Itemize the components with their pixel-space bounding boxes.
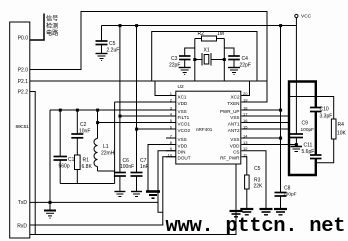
loop antenna thick box — [289, 82, 316, 176]
svg-text:5.6pF: 5.6pF — [302, 149, 315, 155]
svg-text:22K: 22K — [254, 184, 264, 190]
svg-text:CS: CS — [233, 149, 239, 154]
svg-text:RF_PWR: RF_PWR — [220, 156, 240, 161]
svg-text:12: 12 — [243, 146, 248, 151]
svg-text:TXEN: TXEN — [227, 101, 239, 106]
svg-text:C5: C5 — [109, 41, 116, 47]
svg-text:15: 15 — [243, 125, 248, 130]
ground (R3) — [240, 209, 253, 215]
svg-text:VDD: VDD — [178, 101, 188, 106]
svg-text:X1: X1 — [204, 48, 210, 54]
svg-text:C3: C3 — [171, 56, 178, 62]
pin 16 ANT1 wire — [241, 122, 289, 124]
svg-text:XC1: XC1 — [178, 94, 187, 99]
ground (C3) — [179, 68, 191, 75]
svg-text:13: 13 — [243, 140, 248, 145]
svg-text:P2.0: P2.0 — [18, 67, 29, 73]
pin 20 XC2 wire to crystal box — [241, 81, 249, 96]
pin 6 VCO2 wire — [137, 128, 176, 130]
svg-text:22pF: 22pF — [240, 63, 251, 69]
svg-text:U2: U2 — [178, 84, 184, 90]
wire VCC rail y25.5 — [102, 25, 297, 27]
wire bottom long line — [30, 165, 236, 235]
svg-text:10: 10 — [168, 152, 173, 157]
svg-text:ANT1: ANT1 — [228, 121, 240, 126]
svg-text:C1: C1 — [68, 157, 75, 163]
pin 13 VDD wire — [241, 144, 296, 146]
resistor R1 — [75, 155, 81, 170]
svg-text:C5: C5 — [254, 166, 261, 172]
pin 12 CS wire down to ground — [241, 151, 266, 209]
svg-text:VSS: VSS — [230, 115, 239, 120]
capacitor C7 — [131, 26, 143, 192]
junction dots — [59, 109, 62, 112]
pin 14 VSS wire — [241, 137, 280, 139]
wire VCC down to C9 — [295, 18, 297, 134]
svg-text:C2: C2 — [80, 122, 87, 128]
svg-text:ANT2: ANT2 — [228, 128, 240, 133]
svg-text:VCC: VCC — [301, 14, 312, 20]
svg-text:22pF: 22pF — [169, 63, 180, 69]
svg-text:C8: C8 — [284, 186, 291, 192]
ground (C6) — [114, 192, 125, 197]
capacitor C3 — [179, 48, 195, 68]
svg-text:100pF: 100pF — [283, 192, 297, 198]
crystal X1 — [195, 53, 225, 66]
svg-text:VSS: VSS — [178, 109, 187, 114]
svg-text:6.8K: 6.8K — [82, 164, 93, 170]
svg-text:P2.1: P2.1 — [18, 79, 29, 85]
ground (C7) — [131, 192, 142, 197]
svg-text:信号: 信号 — [46, 15, 58, 23]
capacitor C4 — [224, 48, 240, 68]
resistor R2 — [195, 36, 225, 41]
svg-text:20: 20 — [243, 91, 248, 96]
capacitor C8 — [275, 193, 287, 210]
capacitor C11 (series in loop) — [310, 155, 322, 159]
svg-text:nRF401: nRF401 — [196, 127, 213, 132]
svg-text:19: 19 — [243, 98, 248, 103]
svg-text:C4: C4 — [242, 56, 249, 62]
inductor L1 — [94, 110, 98, 171]
svg-text:L1: L1 — [103, 144, 109, 150]
capacitor C9 — [290, 134, 303, 147]
pin 8 VDD wire to thick ground — [148, 145, 176, 192]
svg-text:DIN: DIN — [178, 149, 186, 154]
svg-text:1nF: 1nF — [140, 164, 149, 170]
crystal sub-circuit box — [152, 32, 257, 82]
svg-text:C11: C11 — [304, 143, 313, 149]
resistor R4 parallel branch — [289, 97, 336, 163]
svg-text:1M: 1M — [217, 31, 224, 37]
resistor R3 — [245, 175, 250, 189]
pin 9 stub — [166, 150, 176, 152]
svg-text:2.2uF: 2.2uF — [107, 48, 120, 54]
svg-text:DOUT: DOUT — [178, 156, 191, 161]
svg-text:R1: R1 — [83, 158, 90, 164]
ground (C4) — [228, 68, 240, 75]
capacitor C10 (series in loop) — [310, 108, 322, 112]
pin 10 stub — [166, 156, 176, 158]
svg-text:VDD: VDD — [230, 143, 240, 148]
junction (XC2-X1) — [223, 58, 226, 61]
svg-text:PWR_UP: PWR_UP — [220, 109, 240, 114]
svg-text:VDD: VDD — [178, 143, 188, 148]
pin 17 VSS wire — [241, 115, 289, 117]
wire TxD to DIN — [30, 201, 158, 203]
svg-text:R2: R2 — [198, 31, 205, 37]
svg-text:检测: 检测 — [46, 22, 58, 30]
svg-text:100nF: 100nF — [120, 164, 134, 170]
wire L1 bottom to riser — [98, 170, 115, 172]
pin 5 VCO1 wire — [98, 122, 176, 124]
svg-text:17: 17 — [243, 112, 248, 117]
ground (C9) — [291, 147, 303, 152]
svg-text:VSS: VSS — [178, 137, 187, 142]
thick ground (VSS pin7) — [146, 192, 160, 199]
pin 7 VSS stub — [166, 137, 176, 139]
capacitor C2 — [71, 110, 83, 155]
svg-text:FILT1: FILT1 — [178, 115, 190, 120]
svg-text:RxD: RxD — [17, 223, 27, 229]
wire DIN riser — [158, 151, 176, 213]
pin 4 FILT1 wire — [120, 115, 176, 117]
pin 15 ANT2 wire — [241, 128, 289, 130]
pin 2 VDD wire — [115, 101, 176, 103]
wire P0.0 to signal-detect circuit — [30, 14, 44, 41]
VCC symbol — [295, 14, 298, 17]
node XC2 vertical — [223, 39, 225, 82]
ground (VSS left) — [44, 211, 56, 219]
capacitor C5 (2.2uF) — [96, 26, 108, 54]
svg-text:16: 16 — [243, 118, 248, 123]
svg-text:www. pttcn. net: www. pttcn. net — [166, 215, 346, 238]
svg-text:14: 14 — [243, 134, 248, 139]
svg-text:10K: 10K — [337, 131, 347, 137]
IC U2 nRF401 box — [176, 91, 241, 164]
microcontroller 89C51 box — [10, 22, 30, 238]
svg-text:R4: R4 — [338, 122, 345, 128]
svg-text:C10: C10 — [320, 107, 329, 113]
wire RxD to DOUT — [30, 157, 176, 225]
svg-text:VCO1: VCO1 — [178, 121, 191, 126]
wire P2.2 riser — [30, 92, 35, 235]
pin 11 RF_PWR wire to R3 — [241, 157, 247, 175]
capacitor C1 — [54, 110, 68, 184]
ground (bottom mystery vertical) — [230, 211, 243, 217]
svg-text:电路: 电路 — [46, 29, 59, 37]
ground (CS) — [260, 209, 273, 215]
svg-text:VSS: VSS — [230, 137, 239, 142]
svg-text:22mH: 22mH — [101, 151, 115, 157]
svg-text:89C51: 89C51 — [16, 124, 30, 130]
svg-text:TxD: TxD — [18, 200, 28, 206]
node XC1 vertical — [194, 39, 196, 82]
svg-text:560p: 560p — [59, 164, 70, 170]
junction (XC1-X1) — [193, 58, 196, 61]
svg-text:P0.0: P0.0 — [18, 36, 29, 42]
svg-text:100pF: 100pF — [301, 127, 315, 133]
wire bottom C1/R1 joining riser — [60, 183, 114, 185]
wire VSS rail left vertical to ground — [49, 110, 51, 211]
ground (C5) — [96, 54, 108, 61]
pin 3 VSS long rail — [50, 109, 176, 111]
wire riser to pin2 VDD — [114, 102, 116, 184]
wire PWR_UP / C8 vertical — [280, 26, 282, 193]
capacitor C6 — [114, 26, 126, 192]
svg-text:10nF: 10nF — [79, 129, 90, 135]
ground (C8) — [274, 209, 287, 215]
svg-text:XC2: XC2 — [231, 94, 240, 99]
svg-text:18: 18 — [243, 106, 248, 111]
wire P2.0 to top rail to TXEN — [30, 12, 267, 103]
svg-text:VCO2: VCO2 — [178, 128, 191, 133]
wire P2.1 / crystal box bottom long line — [30, 80, 267, 82]
svg-text:C9: C9 — [302, 121, 309, 127]
pin 1 XC1 wire from crystal — [155, 81, 176, 96]
svg-text:P2.2: P2.2 — [18, 89, 29, 95]
pin 18 PWR_UP wire — [241, 109, 280, 111]
svg-text:3.3pF: 3.3pF — [320, 114, 333, 120]
